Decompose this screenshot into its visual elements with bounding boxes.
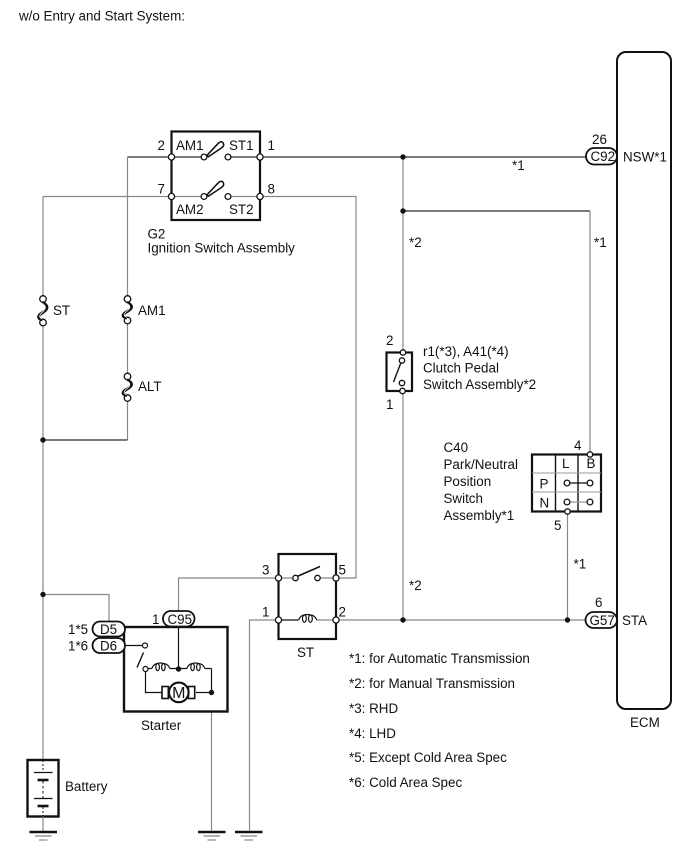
- clutch switch blade: [394, 363, 402, 383]
- starter switch wire from D6: [125, 645, 142, 647]
- motor M circle: [169, 683, 189, 703]
- svg-text:M: M: [172, 685, 185, 702]
- svg-text:1: 1: [152, 612, 159, 627]
- svg-text:ECM: ECM: [630, 715, 660, 730]
- svg-text:Ignition Switch Assembly: Ignition Switch Assembly: [148, 241, 296, 256]
- svg-text:ST1: ST1: [229, 138, 254, 153]
- starter box: [124, 627, 228, 712]
- wire C40 pin5 to STA: [567, 512, 569, 620]
- ground starter: [198, 832, 226, 840]
- svg-text:5: 5: [339, 563, 346, 578]
- wire y211 branch: [403, 210, 590, 212]
- starter switch contact lower: [143, 667, 148, 672]
- C40 N row contact link: [570, 501, 587, 503]
- relay terminal 1: [275, 617, 281, 623]
- svg-text:C92: C92: [591, 149, 616, 164]
- wire ST vertical: [42, 197, 44, 299]
- svg-text:8: 8: [268, 182, 275, 197]
- battery: [28, 760, 59, 817]
- relay coil row wire: [279, 619, 299, 621]
- svg-text:*2: *2: [409, 578, 422, 593]
- svg-text:Switch Assembly*2: Switch Assembly*2: [423, 377, 536, 392]
- relay terminal 3: [275, 575, 281, 581]
- svg-text:1*5: 1*5: [68, 622, 88, 637]
- node junction y594: [40, 592, 45, 597]
- wire starter to ground: [211, 693, 213, 831]
- svg-text:ST: ST: [53, 303, 70, 318]
- clutch contact lower: [399, 380, 404, 385]
- svg-text:C95: C95: [168, 612, 193, 627]
- relay coil: [299, 615, 317, 623]
- wire inside row1: [172, 156, 205, 158]
- svg-text:*2: for Manual Transmission: *2: for Manual Transmission: [349, 676, 515, 691]
- svg-text:ST2: ST2: [229, 202, 254, 217]
- svg-text:Park/Neutral: Park/Neutral: [444, 457, 518, 472]
- svg-text:N: N: [540, 496, 550, 511]
- svg-text:L: L: [562, 456, 569, 471]
- terminal pin1: [257, 154, 263, 160]
- switch blade row2: [207, 181, 224, 196]
- svg-text:*1: *1: [574, 557, 587, 572]
- svg-text:*5: Except Cold Area Spec: *5: Except Cold Area Spec: [349, 750, 507, 765]
- C40 terminal pin5: [565, 509, 570, 514]
- wire AM1 vertical: [127, 157, 129, 299]
- wire AM1 fuse line to pin 2: [128, 156, 172, 158]
- svg-text:Switch: Switch: [444, 491, 483, 506]
- wire battery to D5: [43, 595, 109, 622]
- wire relay pin1 to ground: [250, 620, 279, 831]
- clutch pedal switch box: [387, 353, 413, 392]
- contact ST2 circle: [225, 194, 231, 200]
- svg-text:NSW*1: NSW*1: [623, 150, 667, 165]
- contact AM2 circle: [201, 194, 207, 200]
- terminal pin7: [168, 193, 174, 199]
- node junction y440: [40, 437, 45, 442]
- svg-text:Assembly*1: Assembly*1: [444, 508, 515, 523]
- svg-text:w/o Entry and Start System:: w/o Entry and Start System:: [18, 9, 185, 24]
- svg-text:B: B: [587, 456, 596, 471]
- switch blade row1: [207, 142, 224, 157]
- svg-text:2: 2: [339, 605, 346, 620]
- park/neutral switch C40: [532, 455, 601, 512]
- wire C95 down: [178, 627, 180, 670]
- svg-text:1: 1: [386, 397, 393, 412]
- connector C92: [586, 148, 617, 165]
- ground battery: [30, 832, 58, 840]
- relay top row wires: [279, 577, 296, 579]
- terminal pin8: [257, 193, 263, 199]
- starter switch contact upper: [143, 643, 148, 648]
- starter coil 2: [187, 663, 205, 671]
- node motor junction: [209, 690, 214, 695]
- svg-text:*2: *2: [409, 235, 422, 250]
- svg-text:Clutch Pedal: Clutch Pedal: [423, 361, 499, 376]
- wire link y440: [43, 439, 128, 441]
- svg-text:AM1: AM1: [138, 303, 166, 318]
- terminal pin2: [168, 154, 174, 160]
- wire x590 down to C40 pin4: [589, 211, 591, 455]
- C40 P row contact link: [570, 482, 587, 484]
- notes: [349, 651, 530, 790]
- svg-text:2: 2: [158, 138, 165, 153]
- wire battery to ground: [42, 817, 44, 832]
- svg-text:AM1: AM1: [176, 138, 204, 153]
- contact ST1 circle: [225, 154, 231, 160]
- clutch terminal pin2: [400, 350, 405, 355]
- relay contact circles: [293, 575, 298, 580]
- svg-text:4: 4: [574, 438, 582, 453]
- svg-text:*6: Cold Area Spec: *6: Cold Area Spec: [349, 775, 462, 790]
- svg-text:C40: C40: [444, 440, 469, 455]
- relay terminal 5: [333, 575, 339, 581]
- relay ST box: [279, 554, 337, 639]
- svg-text:Position: Position: [444, 474, 492, 489]
- connector D5: [93, 622, 126, 637]
- relay terminal 2: [333, 617, 339, 623]
- svg-text:*4: LHD: *4: LHD: [349, 726, 396, 741]
- fusible link ALT: [123, 373, 131, 401]
- node coil junction: [176, 666, 181, 671]
- ignition switch assembly G2 box: [172, 132, 261, 221]
- svg-text:Battery: Battery: [65, 779, 108, 794]
- svg-text:AM2: AM2: [176, 202, 204, 217]
- svg-text:3: 3: [262, 563, 269, 578]
- node junction x403 y157: [400, 154, 405, 159]
- contact AM1 circle: [201, 154, 207, 160]
- svg-text:2: 2: [386, 333, 393, 348]
- svg-text:5: 5: [554, 518, 561, 533]
- clutch contact upper: [399, 358, 404, 363]
- svg-text:26: 26: [592, 132, 607, 147]
- ECM: [617, 52, 671, 709]
- svg-text:G2: G2: [148, 227, 166, 242]
- fusible link AM1: [123, 296, 131, 324]
- node junction x403 y620: [400, 617, 405, 622]
- motor M right brush: [188, 687, 194, 699]
- starter switch blade: [137, 653, 144, 668]
- svg-text:G57: G57: [590, 613, 615, 628]
- starter coil wire: [148, 668, 152, 670]
- C40 terminal pin4: [587, 452, 592, 457]
- svg-text:P: P: [540, 477, 549, 492]
- node junction x567 y620: [565, 617, 570, 622]
- node junction x403 y211: [400, 208, 405, 213]
- relay blade: [297, 567, 320, 577]
- svg-text:1: 1: [268, 138, 275, 153]
- svg-text:Starter: Starter: [141, 718, 182, 733]
- connector G57: [586, 612, 618, 628]
- svg-text:7: 7: [158, 182, 165, 197]
- connector C95: [163, 611, 195, 627]
- svg-text:STA: STA: [622, 613, 647, 628]
- wire pin 1 to C92: [260, 156, 586, 158]
- wire inside row2: [172, 196, 205, 198]
- wire clutch vertical x403: [402, 157, 404, 352]
- ground relay: [235, 832, 263, 840]
- starter coil 1: [152, 663, 170, 671]
- motor M left brush: [162, 687, 168, 699]
- wire pin7 row to left: [43, 196, 172, 198]
- svg-text:1: 1: [262, 605, 269, 620]
- svg-text:*1: for Automatic Transmission: *1: for Automatic Transmission: [349, 651, 530, 666]
- wire pin8 to ST relay pin5: [260, 197, 356, 579]
- svg-text:ST: ST: [297, 645, 314, 660]
- clutch terminal pin1: [400, 388, 405, 393]
- wire relay pin3 to C95: [179, 578, 279, 611]
- wire to motor left: [146, 672, 163, 693]
- svg-text:*1: *1: [512, 158, 525, 173]
- fusible link ST: [39, 296, 47, 326]
- wire motor right: [196, 692, 212, 694]
- svg-text:ALT: ALT: [138, 379, 162, 394]
- svg-text:r1(*3), A41(*4): r1(*3), A41(*4): [423, 344, 509, 359]
- connector D6: [93, 638, 126, 653]
- svg-text:1*6: 1*6: [68, 639, 88, 654]
- svg-text:*3: RHD: *3: RHD: [349, 701, 398, 716]
- svg-text:D5: D5: [100, 622, 117, 637]
- svg-text:D6: D6: [100, 639, 117, 654]
- svg-text:6: 6: [595, 595, 602, 610]
- svg-text:*1: *1: [594, 235, 607, 250]
- wire ST2 row to G57: [336, 619, 586, 621]
